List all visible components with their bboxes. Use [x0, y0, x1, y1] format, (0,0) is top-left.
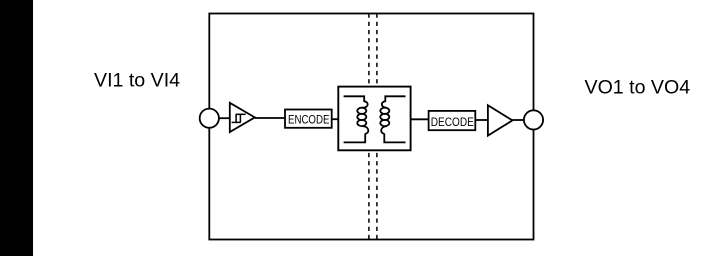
wire transformer to DECODE [411, 118, 429, 120]
package outline box [209, 14, 533, 240]
output pad circle VO [524, 110, 543, 129]
DECODE block [429, 111, 476, 130]
svg-text:ENCODE: ENCODE [288, 112, 329, 126]
input pad circle VI [200, 109, 219, 128]
input Schmitt buffer triangle [230, 103, 255, 132]
wire input pad to buffer [217, 117, 230, 119]
wire ENCODE to transformer [332, 118, 339, 120]
output buffer triangle [488, 105, 513, 135]
transformer box [338, 87, 410, 151]
wire output buffer to pad [512, 119, 526, 121]
black sidebar [0, 0, 33, 256]
hysteresis symbol [232, 114, 246, 122]
wire DECODE to output buffer [475, 119, 488, 121]
svg-text:VO1 to VO4: VO1 to VO4 [585, 77, 691, 99]
isolation barrier dashed line right [376, 14, 378, 240]
wire buffer to ENCODE [255, 117, 285, 119]
transformer secondary winding [380, 96, 405, 142]
transformer primary winding [344, 96, 369, 142]
svg-text:VI1 to VI4: VI1 to VI4 [94, 70, 180, 92]
svg-text:DECODE: DECODE [431, 115, 474, 129]
isolation barrier dashed line left [368, 14, 370, 240]
ENCODE block [285, 110, 332, 128]
